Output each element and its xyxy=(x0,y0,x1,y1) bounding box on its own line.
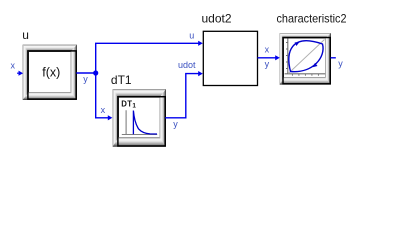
characteristic2 icon hysteresis curve xyxy=(289,41,323,72)
characteristic2 icon curve arrowheads xyxy=(295,42,300,46)
svg-text:udot: udot xyxy=(178,60,196,70)
svg-text:y: y xyxy=(83,74,88,84)
wire f(x).y to junction xyxy=(76,72,95,74)
svg-text:x: x xyxy=(265,44,270,54)
svg-text:u: u xyxy=(189,31,194,41)
block U3 udot2 rectangle xyxy=(203,31,257,85)
svg-text:y: y xyxy=(173,119,178,129)
wire characteristic2 output stub xyxy=(331,57,336,59)
arrowhead into dT1.x xyxy=(108,115,113,120)
svg-text:x: x xyxy=(11,60,16,70)
svg-text:x: x xyxy=(101,105,106,115)
dT1 icon axes xyxy=(122,110,157,134)
svg-text:dT1: dT1 xyxy=(111,73,132,87)
svg-text:udot2: udot2 xyxy=(202,11,232,25)
junction node xyxy=(93,70,98,75)
characteristic2 icon axes xyxy=(285,39,326,74)
input arrow into f(x) xyxy=(17,71,23,76)
block U1 f(x) bevel frame xyxy=(23,45,78,101)
svg-text:y: y xyxy=(265,59,270,69)
arrowhead into udot2.u xyxy=(198,41,203,46)
characteristic2 icon x-axis ticks xyxy=(292,74,318,76)
wire udot2 out to characteristic2 xyxy=(258,57,276,59)
dT1 icon blue curve xyxy=(133,111,157,135)
arrowhead into characteristic2 xyxy=(275,55,280,60)
wire junction down to dT1.x xyxy=(96,73,109,118)
arrowhead into udot2.udot xyxy=(198,71,203,76)
block U4 characteristic2 bevel frame xyxy=(280,33,332,85)
wire junction up to udot2.u xyxy=(96,43,199,73)
characteristic2 icon diagonal xyxy=(288,40,324,74)
svg-text:u: u xyxy=(22,28,29,42)
svg-text:f(x): f(x) xyxy=(42,65,60,79)
svg-text:characteristic2: characteristic2 xyxy=(277,11,347,25)
block U2 dT1 bevel frame xyxy=(113,89,167,147)
wire dT1.y to udot2.udot xyxy=(165,74,198,118)
characteristic2 icon y-axis ticks xyxy=(286,43,288,69)
svg-text:y: y xyxy=(338,59,343,69)
